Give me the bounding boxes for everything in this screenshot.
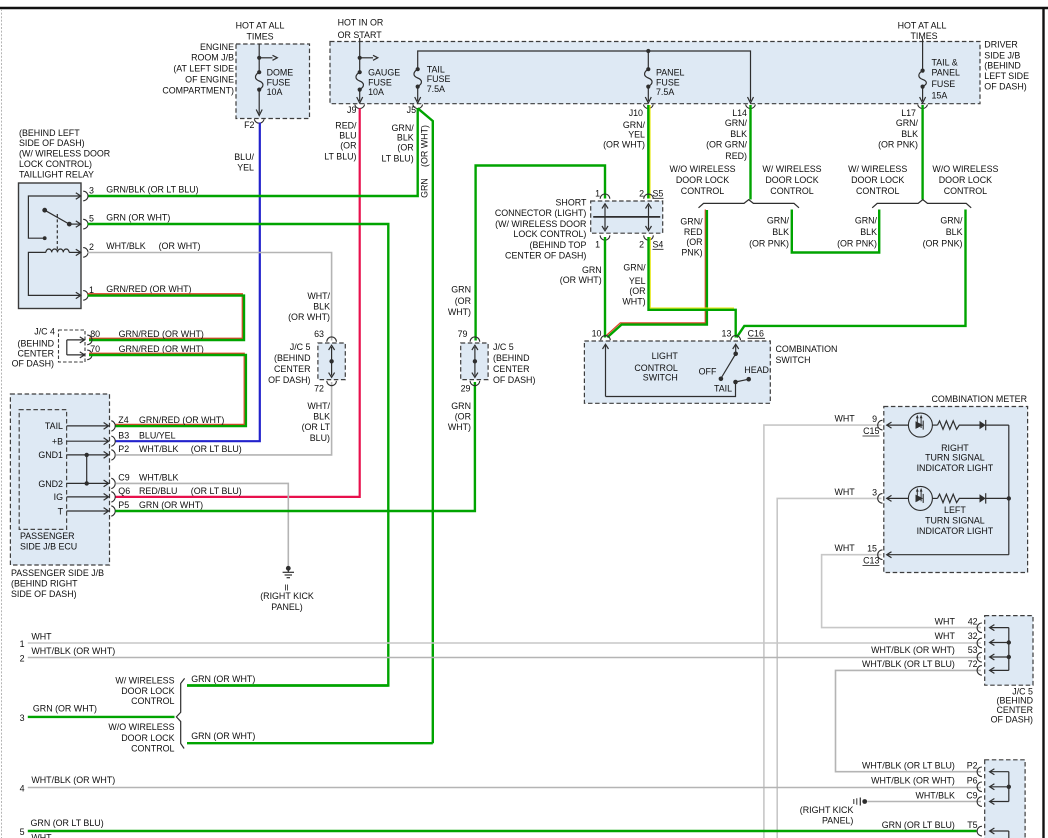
svg-text:TURN SIGNAL: TURN SIGNAL xyxy=(925,453,985,463)
pin label 70 + wire label xyxy=(90,344,204,354)
svg-text:WHT/: WHT/ xyxy=(307,291,330,301)
wire: row 4 WHT/BLK from left margin to P6 xyxy=(28,787,981,789)
svg-text:2: 2 xyxy=(639,189,644,199)
wire: row 3 GRN from left margin to brace xyxy=(28,716,175,718)
svg-text:13: 13 xyxy=(722,329,732,339)
svg-text:3: 3 xyxy=(872,487,877,497)
svg-text:GRN/: GRN/ xyxy=(896,118,919,128)
svg-text:(OR LT BLU): (OR LT BLU) xyxy=(191,444,242,454)
label: GRN (OR WHT) above J/C5 right xyxy=(448,285,471,317)
svg-text:10A: 10A xyxy=(368,87,384,97)
svg-text:TAIL: TAIL xyxy=(45,421,63,431)
pin label 13 and C16 xyxy=(722,329,765,339)
label: WHT/BLK (OR WHT) above J/C5 left xyxy=(288,291,330,322)
svg-text:(OR: (OR xyxy=(455,411,471,421)
value label: TAIL FUSE 7.5A xyxy=(427,64,451,94)
wire: RED/BLU from J9 to Q6 xyxy=(115,108,359,497)
svg-text:GND2: GND2 xyxy=(38,479,63,489)
svg-text:J10: J10 xyxy=(629,108,643,118)
ECU inner box xyxy=(19,410,66,530)
svg-text:RED/: RED/ xyxy=(335,121,357,131)
svg-text:YEL: YEL xyxy=(628,129,645,139)
svg-text:CONTROL: CONTROL xyxy=(944,186,987,196)
svg-text:GRN (OR LT BLU): GRN (OR LT BLU) xyxy=(31,818,104,828)
svg-text:J/C 4: J/C 4 xyxy=(34,326,55,336)
labels: WHT 3 xyxy=(834,487,877,498)
label: PASSENGER SIDE J/B ECU xyxy=(20,531,77,552)
meter block: COMBINATION METER box xyxy=(884,407,1028,573)
svg-text:BLK: BLK xyxy=(946,227,963,237)
label: J/C 5 (BEHIND CENTER OF DASH) bottom right xyxy=(991,686,1033,724)
fuse: TAIL FUSE 7.5A xyxy=(414,67,422,103)
svg-text:DRIVER: DRIVER xyxy=(984,40,1018,50)
svg-text:DOOR LOCK: DOOR LOCK xyxy=(765,175,818,185)
svg-text:FUSE: FUSE xyxy=(368,77,392,87)
pin label L14 xyxy=(732,108,747,118)
label: COMBINATION METER xyxy=(932,394,1028,404)
connector cups meter pins 9,3,15 xyxy=(878,420,883,559)
svg-text:HOT AT ALL: HOT AT ALL xyxy=(898,20,947,30)
relay internals: coil xyxy=(28,214,80,299)
wire: WHT meter pin 3 to bottom margin xyxy=(777,498,881,838)
svg-text:P2: P2 xyxy=(967,761,978,771)
svg-text:F2: F2 xyxy=(244,120,254,130)
svg-text:OF ENGINE: OF ENGINE xyxy=(185,75,234,85)
svg-text:TAIL: TAIL xyxy=(714,384,732,394)
svg-text:32: 32 xyxy=(968,631,978,641)
label: WHT/BLK (OR LT BLU) below J/C5 left xyxy=(302,401,331,443)
value label: TAIL & PANEL FUSE 15A xyxy=(932,57,961,100)
svg-text:GRN/: GRN/ xyxy=(725,118,748,128)
svg-text:+B: +B xyxy=(52,436,63,446)
svg-text:CENTER OF DASH): CENTER OF DASH) xyxy=(505,251,586,261)
relay internals: contact circuit xyxy=(28,193,80,240)
svg-text:GRN/RED (OR WHT): GRN/RED (OR WHT) xyxy=(119,329,204,339)
svg-text:(OR PNK): (OR PNK) xyxy=(749,239,789,249)
svg-text:1: 1 xyxy=(595,240,600,250)
svg-text:29: 29 xyxy=(461,383,471,393)
brace row 3 xyxy=(176,678,184,748)
connector J10 cup xyxy=(643,105,653,109)
svg-text:5: 5 xyxy=(89,214,94,224)
svg-text:SHORT: SHORT xyxy=(555,198,586,208)
svg-text:LEFT SIDE: LEFT SIDE xyxy=(984,71,1029,81)
connector block: passenger J/B lower right box xyxy=(985,760,1025,838)
J/C5 left internals xyxy=(329,345,335,377)
svg-text:GRN (OR WHT): GRN (OR WHT) xyxy=(191,674,255,684)
svg-text:15A: 15A xyxy=(932,90,948,100)
svg-text:(OR: (OR xyxy=(397,143,413,153)
wire: row 5 GRN from left margin to T5 xyxy=(28,830,977,832)
svg-text:7.5A: 7.5A xyxy=(656,87,674,97)
label: 2 WHT/BLK (OR WHT) xyxy=(20,646,116,663)
svg-text:7.5A: 7.5A xyxy=(427,84,445,94)
svg-text:SIDE J/B ECU: SIDE J/B ECU xyxy=(20,542,77,552)
svg-text:(OR: (OR xyxy=(455,296,471,306)
svg-text:WHT): WHT) xyxy=(448,422,471,432)
label: PASSENGER SIDE J/B (BEHIND RIGHT SIDE OF DASH) xyxy=(11,568,104,599)
svg-text:WHT/BLK (OR WHT): WHT/BLK (OR WHT) xyxy=(31,775,115,785)
svg-text:PASSENGER: PASSENGER xyxy=(20,531,75,541)
svg-text:YEL: YEL xyxy=(629,276,646,286)
svg-text:DOOR LOCK: DOOR LOCK xyxy=(939,175,992,185)
svg-text:FUSE: FUSE xyxy=(932,79,956,89)
svg-text:COMBINATION METER: COMBINATION METER xyxy=(932,394,1028,404)
svg-text:PANEL: PANEL xyxy=(656,67,685,77)
svg-text:(AT LEFT SIDE: (AT LEFT SIDE xyxy=(173,64,234,74)
svg-text:S5: S5 xyxy=(653,189,664,199)
svg-text:DOME: DOME xyxy=(267,67,294,77)
label: GRN (OR WHT) xyxy=(560,265,602,285)
svg-text:LOCK CONTROL): LOCK CONTROL) xyxy=(19,159,92,169)
svg-text:(OR: (OR xyxy=(340,141,356,151)
labels rows 42,32,53,72 xyxy=(935,616,978,626)
junction block: J/C 5 (left) xyxy=(318,343,345,380)
label: GRN/YEL (OR WHT) at J10 xyxy=(603,120,645,150)
light control switch internals xyxy=(603,344,752,396)
pin label 79 xyxy=(458,329,468,339)
svg-text:BLK: BLK xyxy=(313,411,330,421)
svg-text:(BEHIND LEFT: (BEHIND LEFT xyxy=(19,128,80,138)
svg-text:FUSE: FUSE xyxy=(427,74,451,84)
svg-text:W/ WIRELESS: W/ WIRELESS xyxy=(762,164,821,174)
svg-text:P6: P6 xyxy=(967,776,978,786)
label: COMBINATION SWITCH xyxy=(776,344,838,365)
wire: GRN (OR WHT) relay pin 5 down to row-3 W/ wireless branch xyxy=(88,224,389,686)
wire: GRN/BLK from J5 down to taillight relay pin 3 xyxy=(88,108,418,196)
label: DRIVER SIDE J/B (BEHIND LEFT SIDE OF DASH) xyxy=(984,40,1029,92)
frame right border xyxy=(1042,7,1044,838)
labels rows P2,P6,C9,T5 xyxy=(862,761,978,771)
svg-text:SIDE OF DASH): SIDE OF DASH) xyxy=(11,589,77,599)
wire: GRN/RED (OR PNK) L14 left branch down to light control switch pin 10 xyxy=(607,210,707,338)
label: GRN/BLK (OR PNK) under L14 right xyxy=(749,216,789,249)
svg-text:GRN: GRN xyxy=(420,178,430,198)
junction block: J/C 5 (right) xyxy=(461,343,488,380)
wire: WHT/BLK ECU C9 to ground xyxy=(115,483,288,566)
label: GRN/RED (OR PNK) xyxy=(680,217,703,258)
svg-text:53: 53 xyxy=(968,645,978,655)
svg-text:GRN (OR WHT): GRN (OR WHT) xyxy=(191,731,255,741)
ECU pin arrows xyxy=(67,423,109,515)
svg-text:WHT/BLK (OR WHT): WHT/BLK (OR WHT) xyxy=(871,776,955,786)
svg-text:YEL: YEL xyxy=(237,163,254,173)
svg-text:BLK: BLK xyxy=(772,227,789,237)
connector cup 72 xyxy=(327,381,337,386)
svg-text:LOCK CONTROL): LOCK CONTROL) xyxy=(513,229,586,239)
wire: GRN S4 pin 1 down to light control switch pin 10 xyxy=(604,237,606,338)
connector cups J/C4 pins 80,70 xyxy=(87,335,92,360)
label: partial WHT row 6 xyxy=(31,833,52,838)
connector cup 63 xyxy=(327,337,337,342)
wire: WHT/BLK J/C5 pin 72 down to P2 xyxy=(836,670,982,771)
svg-text:BLK: BLK xyxy=(397,132,414,142)
svg-text:OF DASH): OF DASH) xyxy=(984,82,1026,92)
svg-text:10: 10 xyxy=(592,329,602,339)
svg-text:W/O WIRELESS: W/O WIRELESS xyxy=(932,164,998,174)
svg-text:(RIGHT KICK: (RIGHT KICK xyxy=(800,805,854,815)
svg-text:J9: J9 xyxy=(347,105,356,115)
svg-text:72: 72 xyxy=(314,383,324,393)
svg-text:ROOM J/B: ROOM J/B xyxy=(191,53,234,63)
svg-text:OF DASH): OF DASH) xyxy=(991,715,1033,725)
svg-text:BLK: BLK xyxy=(730,129,747,139)
svg-text:(BEHIND TOP: (BEHIND TOP xyxy=(530,240,587,250)
svg-text:OF DASH): OF DASH) xyxy=(12,359,54,369)
ground: right kick panel (C9 row) xyxy=(854,798,867,806)
svg-text:BLU): BLU) xyxy=(310,433,330,443)
wire: GRN from short connector S5 pin1 over to J/C5 right pin 79 xyxy=(476,166,605,341)
svg-text:15: 15 xyxy=(867,544,877,554)
svg-text:4: 4 xyxy=(20,784,25,794)
svg-text:W/ WIRELESS: W/ WIRELESS xyxy=(115,676,174,686)
svg-text:9: 9 xyxy=(872,414,877,424)
svg-text:GAUGE: GAUGE xyxy=(368,67,400,77)
svg-text:C16: C16 xyxy=(748,329,764,339)
svg-text:CENTER: CENTER xyxy=(274,364,311,374)
svg-text:PANEL: PANEL xyxy=(932,68,961,78)
value label: PANEL FUSE 7.5A xyxy=(656,67,685,97)
label: W/ WIRELESS DOOR LOCK CONTROL (L14 right) xyxy=(762,164,821,196)
svg-text:(OR PNK): (OR PNK) xyxy=(923,239,963,249)
svg-text:BLU/: BLU/ xyxy=(234,152,254,162)
svg-text:C15: C15 xyxy=(863,426,879,436)
svg-text:BLU: BLU xyxy=(339,130,356,140)
svg-text:ENGINE: ENGINE xyxy=(200,42,234,52)
pin label J5 xyxy=(407,105,416,115)
svg-text:OFF: OFF xyxy=(699,367,717,377)
pin label J10 xyxy=(629,108,643,118)
svg-text:CONTROL: CONTROL xyxy=(131,744,174,754)
wire: GRN (OR WHT) row3 bottom branch up to J5 vertical xyxy=(187,742,433,744)
svg-text:SWITCH: SWITCH xyxy=(643,372,678,382)
svg-text:COMBINATION: COMBINATION xyxy=(776,344,838,354)
svg-text:10A: 10A xyxy=(267,87,283,97)
svg-text:TIMES: TIMES xyxy=(246,32,273,42)
label: RIGHT TURN SIGNAL INDICATOR LIGHT xyxy=(917,443,994,473)
svg-text:HOT AT ALL: HOT AT ALL xyxy=(236,20,285,30)
J/C5 right internals xyxy=(472,345,478,377)
svg-text:T: T xyxy=(58,506,64,516)
svg-text:GRN/: GRN/ xyxy=(680,217,703,227)
svg-text:GRN/: GRN/ xyxy=(623,262,646,272)
svg-text:WHT/BLK: WHT/BLK xyxy=(139,473,179,483)
pin label 72 xyxy=(314,383,324,393)
svg-text:RED/BLU: RED/BLU xyxy=(139,486,177,496)
svg-text:WHT/: WHT/ xyxy=(307,401,330,411)
connector cups pins 10,13 xyxy=(601,336,741,341)
svg-text:42: 42 xyxy=(968,616,978,626)
svg-text:T5: T5 xyxy=(967,820,977,830)
wire: GRN ECU P5 to J/C5 pin 29 xyxy=(115,382,475,511)
svg-text:RED: RED xyxy=(684,227,703,237)
svg-text:CONTROL: CONTROL xyxy=(681,186,724,196)
svg-text:CONNECTOR (LIGHT): CONNECTOR (LIGHT) xyxy=(495,208,587,218)
wire: GRN/BLK from L14 down to brace xyxy=(749,105,751,200)
svg-text:WHT/BLK (OR WHT): WHT/BLK (OR WHT) xyxy=(871,645,955,655)
switch block: LIGHT CONTROL SWITCH box xyxy=(584,341,770,403)
svg-text:TAIL: TAIL xyxy=(427,64,445,74)
wire labels ECU rows xyxy=(118,415,224,425)
svg-text:PNK): PNK) xyxy=(681,247,702,257)
svg-text:(OR GRN/: (OR GRN/ xyxy=(706,140,747,150)
pin labels 3,5,2,1 xyxy=(89,186,94,296)
short connector internals xyxy=(593,204,660,231)
svg-text:CENTER: CENTER xyxy=(493,364,530,374)
svg-text:WHT: WHT xyxy=(31,833,52,838)
svg-text:GRN: GRN xyxy=(451,285,471,295)
brace under L17 xyxy=(872,200,971,208)
svg-text:FUSE: FUSE xyxy=(267,77,291,87)
svg-text:INDICATOR LIGHT: INDICATOR LIGHT xyxy=(917,526,994,536)
wire: GRN (OR WHT) branch from J5 down to W/O wireless row-3 branch xyxy=(418,108,433,743)
label: 1 WHT xyxy=(20,632,53,649)
svg-text:GRN: GRN xyxy=(451,401,471,411)
svg-text:SIDE J/B: SIDE J/B xyxy=(984,50,1020,60)
pin labels S5 row: 1 2 S5 xyxy=(595,189,663,199)
connector cups ECU pins xyxy=(111,421,115,517)
svg-text:(OR PNK): (OR PNK) xyxy=(878,140,918,150)
label: J/C 4 (BEHIND CENTER OF DASH) xyxy=(12,326,55,368)
lower connector internals xyxy=(990,769,1011,838)
ground label: II (RIGHT KICK PANEL) xyxy=(260,584,314,612)
junction block: DRIVER SIDE J/B box xyxy=(330,42,980,104)
svg-text:TURN SIGNAL: TURN SIGNAL xyxy=(925,516,985,526)
svg-text:2: 2 xyxy=(89,242,94,252)
label: RED/BLU (OR LT BLU) xyxy=(324,121,357,162)
svg-text:BLK: BLK xyxy=(860,227,877,237)
svg-text:W/O WIRELESS: W/O WIRELESS xyxy=(669,164,735,174)
svg-text:GRN/: GRN/ xyxy=(623,120,646,130)
svg-text:WHT/BLK (OR WHT): WHT/BLK (OR WHT) xyxy=(31,646,115,656)
wire: GRN/BLK from L17 down to brace xyxy=(921,105,923,200)
connector block: SHORT CONNECTOR box xyxy=(591,201,663,233)
svg-text:(OR LT BLU): (OR LT BLU) xyxy=(191,486,242,496)
connector cups J/C5 lower pins 42,32,53,72 xyxy=(977,623,982,675)
node: HOT AT ALL TIMES (left) xyxy=(236,20,285,41)
connector J5 cup xyxy=(413,105,423,109)
svg-text:WHT: WHT xyxy=(935,631,956,641)
svg-text:DOOR LOCK: DOOR LOCK xyxy=(121,733,174,743)
svg-text:WHT/BLK (OR LT BLU): WHT/BLK (OR LT BLU) xyxy=(862,761,955,771)
svg-text:PANEL): PANEL) xyxy=(822,816,853,826)
pin label F2 xyxy=(244,120,254,130)
svg-text:C9: C9 xyxy=(966,790,977,800)
svg-text:(BEHIND: (BEHIND xyxy=(274,353,311,363)
label: OFF xyxy=(699,367,717,377)
svg-text:SWITCH: SWITCH xyxy=(776,355,811,365)
svg-text:SIDE OF DASH): SIDE OF DASH) xyxy=(19,138,85,148)
svg-text:W/O WIRELESS: W/O WIRELESS xyxy=(108,722,174,732)
wire: GRN/YEL S4 pin 2 to light control switch pin 13 xyxy=(649,237,736,338)
svg-text:RIGHT: RIGHT xyxy=(941,443,969,453)
svg-text:WHT/BLK: WHT/BLK xyxy=(139,444,179,454)
svg-text:BLU/YEL: BLU/YEL xyxy=(139,430,176,440)
svg-text:3: 3 xyxy=(20,713,25,723)
labels: WHT 9 C15 xyxy=(834,414,879,436)
wire: GRN/YEL from J10 to short connector S5 pin 2 xyxy=(648,105,650,199)
junction: GND1-GND2 link xyxy=(85,453,89,486)
svg-text:RED): RED) xyxy=(725,151,747,161)
svg-text:CENTER: CENTER xyxy=(18,348,55,358)
wire: row 2 WHT/BLK from left margin to J/C5 pin 53 xyxy=(28,657,981,659)
wire label: GRN/RED (OR WHT) pin 1 xyxy=(106,284,191,294)
svg-text:WHT): WHT) xyxy=(622,296,645,306)
svg-text:GRN/RED (OR WHT): GRN/RED (OR WHT) xyxy=(119,344,204,354)
svg-text:(OR LT: (OR LT xyxy=(302,422,331,432)
svg-text:WHT: WHT xyxy=(935,616,956,626)
svg-text:GRN/RED (OR WHT): GRN/RED (OR WHT) xyxy=(106,284,191,294)
value label: DOME FUSE 10A xyxy=(267,67,294,97)
pin label L17 xyxy=(901,108,916,118)
junction block: PASSENGER SIDE J/B box xyxy=(10,394,109,565)
svg-text:GRN (OR WHT): GRN (OR WHT) xyxy=(139,500,203,510)
svg-text:2: 2 xyxy=(20,654,25,664)
label: W/O WIRELESS DOOR LOCK CONTROL (L14 left) xyxy=(669,164,735,196)
wire: GRN/BLK (OR PNK) L17 right branch down to light control switch pin 13 xyxy=(737,210,966,338)
svg-text:WHT: WHT xyxy=(834,487,855,497)
svg-text:INDICATOR LIGHT: INDICATOR LIGHT xyxy=(917,463,994,473)
relay: TAILLIGHT RELAY box xyxy=(19,183,82,309)
connector cups S5 pins 1,2 xyxy=(600,194,653,199)
svg-text:GRN/RED (OR WHT): GRN/RED (OR WHT) xyxy=(139,415,224,425)
svg-text:CONTROL: CONTROL xyxy=(770,186,813,196)
svg-text:WHT/BLK: WHT/BLK xyxy=(915,790,955,800)
meter row 3 wire and right link xyxy=(887,425,1012,558)
svg-text:PASSENGER SIDE J/B: PASSENGER SIDE J/B xyxy=(11,568,104,578)
svg-text:5: 5 xyxy=(20,827,25,837)
svg-text:J/C 5: J/C 5 xyxy=(290,342,311,352)
svg-text:HOT IN OR: HOT IN OR xyxy=(338,18,384,28)
wire label: WHT/BLK (OR WHT) pin 2 xyxy=(106,241,200,251)
svg-text:3: 3 xyxy=(89,186,94,196)
wire: WHT/BLK ground to C9 xyxy=(867,801,981,803)
svg-text:OF DASH): OF DASH) xyxy=(493,375,535,385)
label: GRN (OR WHT) bottom branch xyxy=(191,731,255,741)
frame top border xyxy=(0,7,1048,10)
J/C4 internals xyxy=(67,337,85,358)
wire label: GRN/BLK (OR LT BLU) pin 3 xyxy=(106,185,198,195)
svg-text:(W/ WIRELESS DOOR: (W/ WIRELESS DOOR xyxy=(19,149,110,159)
svg-text:DOOR LOCK: DOOR LOCK xyxy=(121,686,174,696)
svg-text:TIMES: TIMES xyxy=(910,31,937,41)
wire label: GRN (OR WHT) pin 5 xyxy=(106,213,170,223)
svg-text:WHT: WHT xyxy=(834,543,855,553)
svg-text:LT BLU): LT BLU) xyxy=(324,151,356,161)
label: GRN (OR WHT) rotated xyxy=(420,125,430,198)
svg-text:(OR WHT): (OR WHT) xyxy=(603,140,645,150)
wire: GRN/RED J/C4 pin 70 to ECU Z4 xyxy=(89,353,246,426)
junction block: J/C 4 xyxy=(59,330,86,362)
label: GRN/YEL (OR WHT) xyxy=(622,262,646,306)
label: HEAD xyxy=(744,365,769,375)
label: W/O WIRELESS DOOR LOCK CONTROL (row3 bottom) xyxy=(108,722,174,753)
svg-text:(BEHIND RIGHT: (BEHIND RIGHT xyxy=(11,579,78,589)
svg-text:63: 63 xyxy=(314,329,324,339)
svg-text:COMPARTMENT): COMPARTMENT) xyxy=(162,85,234,95)
svg-text:L14: L14 xyxy=(732,108,747,118)
svg-text:WHT/BLK (OR LT BLU): WHT/BLK (OR LT BLU) xyxy=(862,659,955,669)
fuse: PANEL FUSE 7.5A xyxy=(645,51,653,103)
svg-text:B3: B3 xyxy=(118,430,129,440)
svg-text:C9: C9 xyxy=(118,473,129,483)
svg-text:GRN/: GRN/ xyxy=(392,123,415,133)
label above taillight relay xyxy=(19,128,110,180)
svg-text:GRN/BLK (OR LT BLU): GRN/BLK (OR LT BLU) xyxy=(106,185,198,195)
junction block: ENGINE ROOM J/B box xyxy=(236,44,310,119)
svg-text:J/C 5: J/C 5 xyxy=(493,342,514,352)
svg-text:L17: L17 xyxy=(901,108,916,118)
